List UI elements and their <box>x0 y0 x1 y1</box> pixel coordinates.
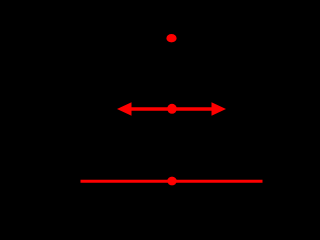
wire (arrow shaft) <box>126 107 217 111</box>
right arrowhead <box>212 102 227 115</box>
left arrowhead <box>117 102 132 115</box>
line (bottom) <box>81 180 263 183</box>
node (arrow center dot) <box>167 104 177 114</box>
double-headed arrow (middle) <box>117 102 226 115</box>
point (top dot) <box>166 34 176 42</box>
node (line center dot) <box>167 177 176 186</box>
